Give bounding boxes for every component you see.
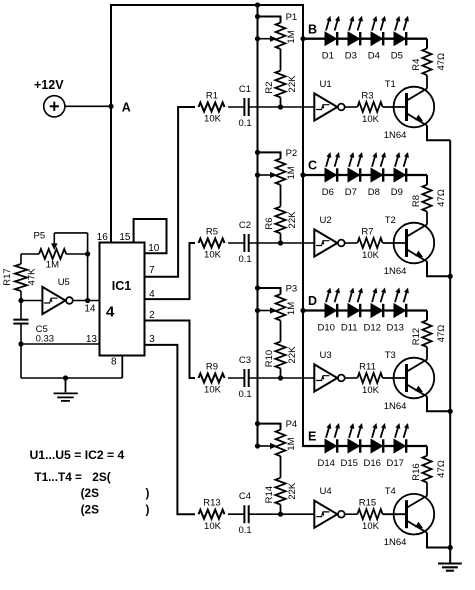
svg-text:D14: D14 (317, 458, 334, 469)
svg-text:U1...U5 = IC2 = 4: U1...U5 = IC2 = 4 (30, 448, 125, 462)
svg-text:16: 16 (97, 232, 109, 243)
svg-text:R5: R5 (206, 227, 218, 238)
svg-text:2: 2 (149, 310, 155, 321)
svg-text:R3: R3 (361, 91, 373, 102)
svg-text:C4: C4 (239, 491, 251, 502)
svg-text:10K: 10K (204, 250, 222, 261)
svg-text:1M: 1M (286, 437, 297, 450)
svg-text:R17: R17 (2, 268, 13, 285)
svg-text:10K: 10K (362, 114, 380, 125)
svg-text:U1: U1 (320, 79, 332, 90)
svg-text:R13: R13 (203, 498, 220, 509)
svg-text:C1: C1 (239, 84, 251, 95)
svg-text:A: A (122, 101, 131, 115)
svg-text:R14: R14 (264, 486, 275, 503)
svg-text:1M: 1M (286, 30, 297, 43)
svg-text:C2: C2 (239, 220, 251, 231)
svg-text:1N64: 1N64 (384, 537, 407, 548)
svg-text:): ) (146, 503, 150, 517)
svg-text:B: B (308, 22, 317, 36)
svg-text:U3: U3 (320, 350, 332, 361)
svg-text:U4: U4 (320, 486, 332, 497)
svg-text:22K: 22K (287, 75, 298, 93)
svg-text:R16: R16 (411, 463, 422, 480)
svg-text:D17: D17 (386, 458, 403, 469)
svg-text:0.1: 0.1 (239, 389, 252, 400)
svg-text:U5: U5 (58, 277, 70, 288)
svg-text:R10: R10 (264, 350, 275, 367)
svg-text:T2: T2 (385, 215, 396, 226)
svg-text:D9: D9 (391, 187, 403, 198)
svg-text:): ) (146, 486, 150, 500)
svg-text:47K: 47K (26, 268, 37, 286)
svg-text:P5: P5 (34, 231, 46, 242)
svg-text:P1: P1 (286, 12, 298, 23)
svg-text:0.1: 0.1 (239, 525, 252, 536)
svg-text:10K: 10K (362, 521, 380, 532)
svg-text:T1...T4 =: T1...T4 = (34, 470, 82, 484)
svg-text:0.33: 0.33 (36, 334, 55, 345)
svg-text:D10: D10 (317, 323, 334, 334)
svg-text:D16: D16 (363, 458, 380, 469)
svg-text:1N64: 1N64 (384, 266, 407, 277)
svg-text:10K: 10K (204, 114, 222, 125)
svg-text:D3: D3 (345, 51, 357, 62)
svg-text:22K: 22K (287, 346, 298, 364)
svg-text:47Ω: 47Ω (436, 325, 447, 343)
svg-text:D: D (308, 294, 317, 308)
svg-text:IC1: IC1 (112, 279, 132, 293)
svg-text:D7: D7 (345, 187, 357, 198)
svg-text:T3: T3 (385, 350, 396, 361)
svg-text:10K: 10K (204, 521, 222, 532)
svg-text:T4: T4 (385, 486, 396, 497)
svg-text:22K: 22K (287, 482, 298, 500)
svg-text:R4: R4 (411, 59, 422, 71)
svg-text:R15: R15 (359, 498, 376, 509)
svg-text:1N64: 1N64 (384, 401, 407, 412)
svg-text:14: 14 (84, 304, 96, 315)
svg-text:R8: R8 (411, 195, 422, 207)
svg-text:D8: D8 (368, 187, 380, 198)
svg-text:R2: R2 (264, 81, 275, 93)
svg-text:0.1: 0.1 (239, 118, 252, 129)
svg-text:R6: R6 (264, 217, 275, 229)
svg-text:22K: 22K (287, 211, 298, 229)
svg-text:R12: R12 (411, 328, 422, 345)
svg-text:7: 7 (149, 265, 155, 276)
svg-text:2S(: 2S( (92, 470, 110, 484)
svg-text:C3: C3 (239, 355, 251, 366)
svg-text:T1: T1 (385, 79, 396, 90)
svg-text:R11: R11 (359, 362, 376, 373)
svg-text:(2S: (2S (81, 486, 99, 500)
svg-text:D6: D6 (322, 187, 334, 198)
svg-text:D13: D13 (386, 323, 403, 334)
svg-text:10K: 10K (362, 385, 380, 396)
svg-text:R7: R7 (361, 227, 373, 238)
svg-text:D1: D1 (322, 51, 334, 62)
svg-text:R9: R9 (206, 362, 218, 373)
svg-text:(2S: (2S (81, 503, 99, 517)
svg-text:E: E (308, 430, 316, 444)
svg-text:D11: D11 (341, 323, 358, 334)
svg-text:3: 3 (149, 334, 155, 345)
svg-text:P3: P3 (286, 284, 298, 295)
svg-text:R1: R1 (206, 91, 218, 102)
svg-text:U2: U2 (320, 215, 332, 226)
svg-text:D15: D15 (340, 458, 357, 469)
svg-text:4: 4 (149, 289, 155, 300)
svg-text:D4: D4 (368, 51, 380, 62)
svg-text:0.1: 0.1 (239, 254, 252, 265)
svg-text:C: C (308, 159, 317, 173)
svg-text:P4: P4 (286, 419, 298, 430)
svg-text:47Ω: 47Ω (436, 53, 447, 71)
svg-text:D12: D12 (363, 323, 380, 334)
svg-text:8: 8 (111, 357, 117, 368)
svg-text:15: 15 (119, 232, 131, 243)
svg-text:10K: 10K (204, 385, 222, 396)
svg-text:4: 4 (106, 304, 115, 321)
svg-text:1N64: 1N64 (384, 130, 407, 141)
svg-text:1M: 1M (286, 166, 297, 179)
svg-text:10: 10 (148, 243, 160, 254)
svg-text:10K: 10K (362, 250, 380, 261)
svg-text:D5: D5 (391, 51, 403, 62)
svg-text:1M: 1M (286, 302, 297, 315)
svg-text:47Ω: 47Ω (436, 189, 447, 207)
svg-text:+12V: +12V (34, 78, 64, 92)
svg-text:47Ω: 47Ω (436, 460, 447, 478)
svg-text:P2: P2 (286, 148, 298, 159)
svg-text:1M: 1M (46, 260, 59, 271)
